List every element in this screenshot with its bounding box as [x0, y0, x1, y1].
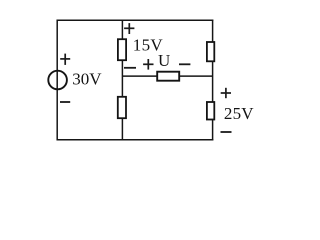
wire middle horizontal net	[122, 75, 212, 77]
resistor R5 (horizontal, voltage U)	[157, 72, 179, 81]
label + polarity of U	[143, 59, 153, 70]
label + polarity of 25V	[221, 88, 231, 98]
label - polarity of 25V	[221, 131, 232, 133]
wire top bus	[57, 19, 214, 21]
resistor R1 (middle top, 15V)	[118, 39, 126, 60]
svg-text:U: U	[158, 51, 170, 70]
label - polarity of U	[179, 63, 190, 65]
resistor R4 (right bottom)	[207, 102, 214, 120]
svg-text:25V: 25V	[224, 104, 254, 123]
label + polarity of R1	[124, 23, 134, 34]
wire bottom bus	[57, 139, 214, 141]
wire middle branch	[121, 20, 123, 141]
label - polarity of source	[60, 101, 70, 103]
resistor R3 (right top)	[207, 42, 214, 61]
svg-text:30V: 30V	[72, 70, 102, 89]
label - polarity of R1	[124, 67, 136, 69]
resistor R2 (middle bottom)	[118, 97, 126, 118]
wire right branch	[212, 20, 214, 141]
voltage source 30V	[48, 71, 67, 90]
wire left branch	[56, 20, 58, 141]
label + polarity of source	[60, 54, 70, 65]
